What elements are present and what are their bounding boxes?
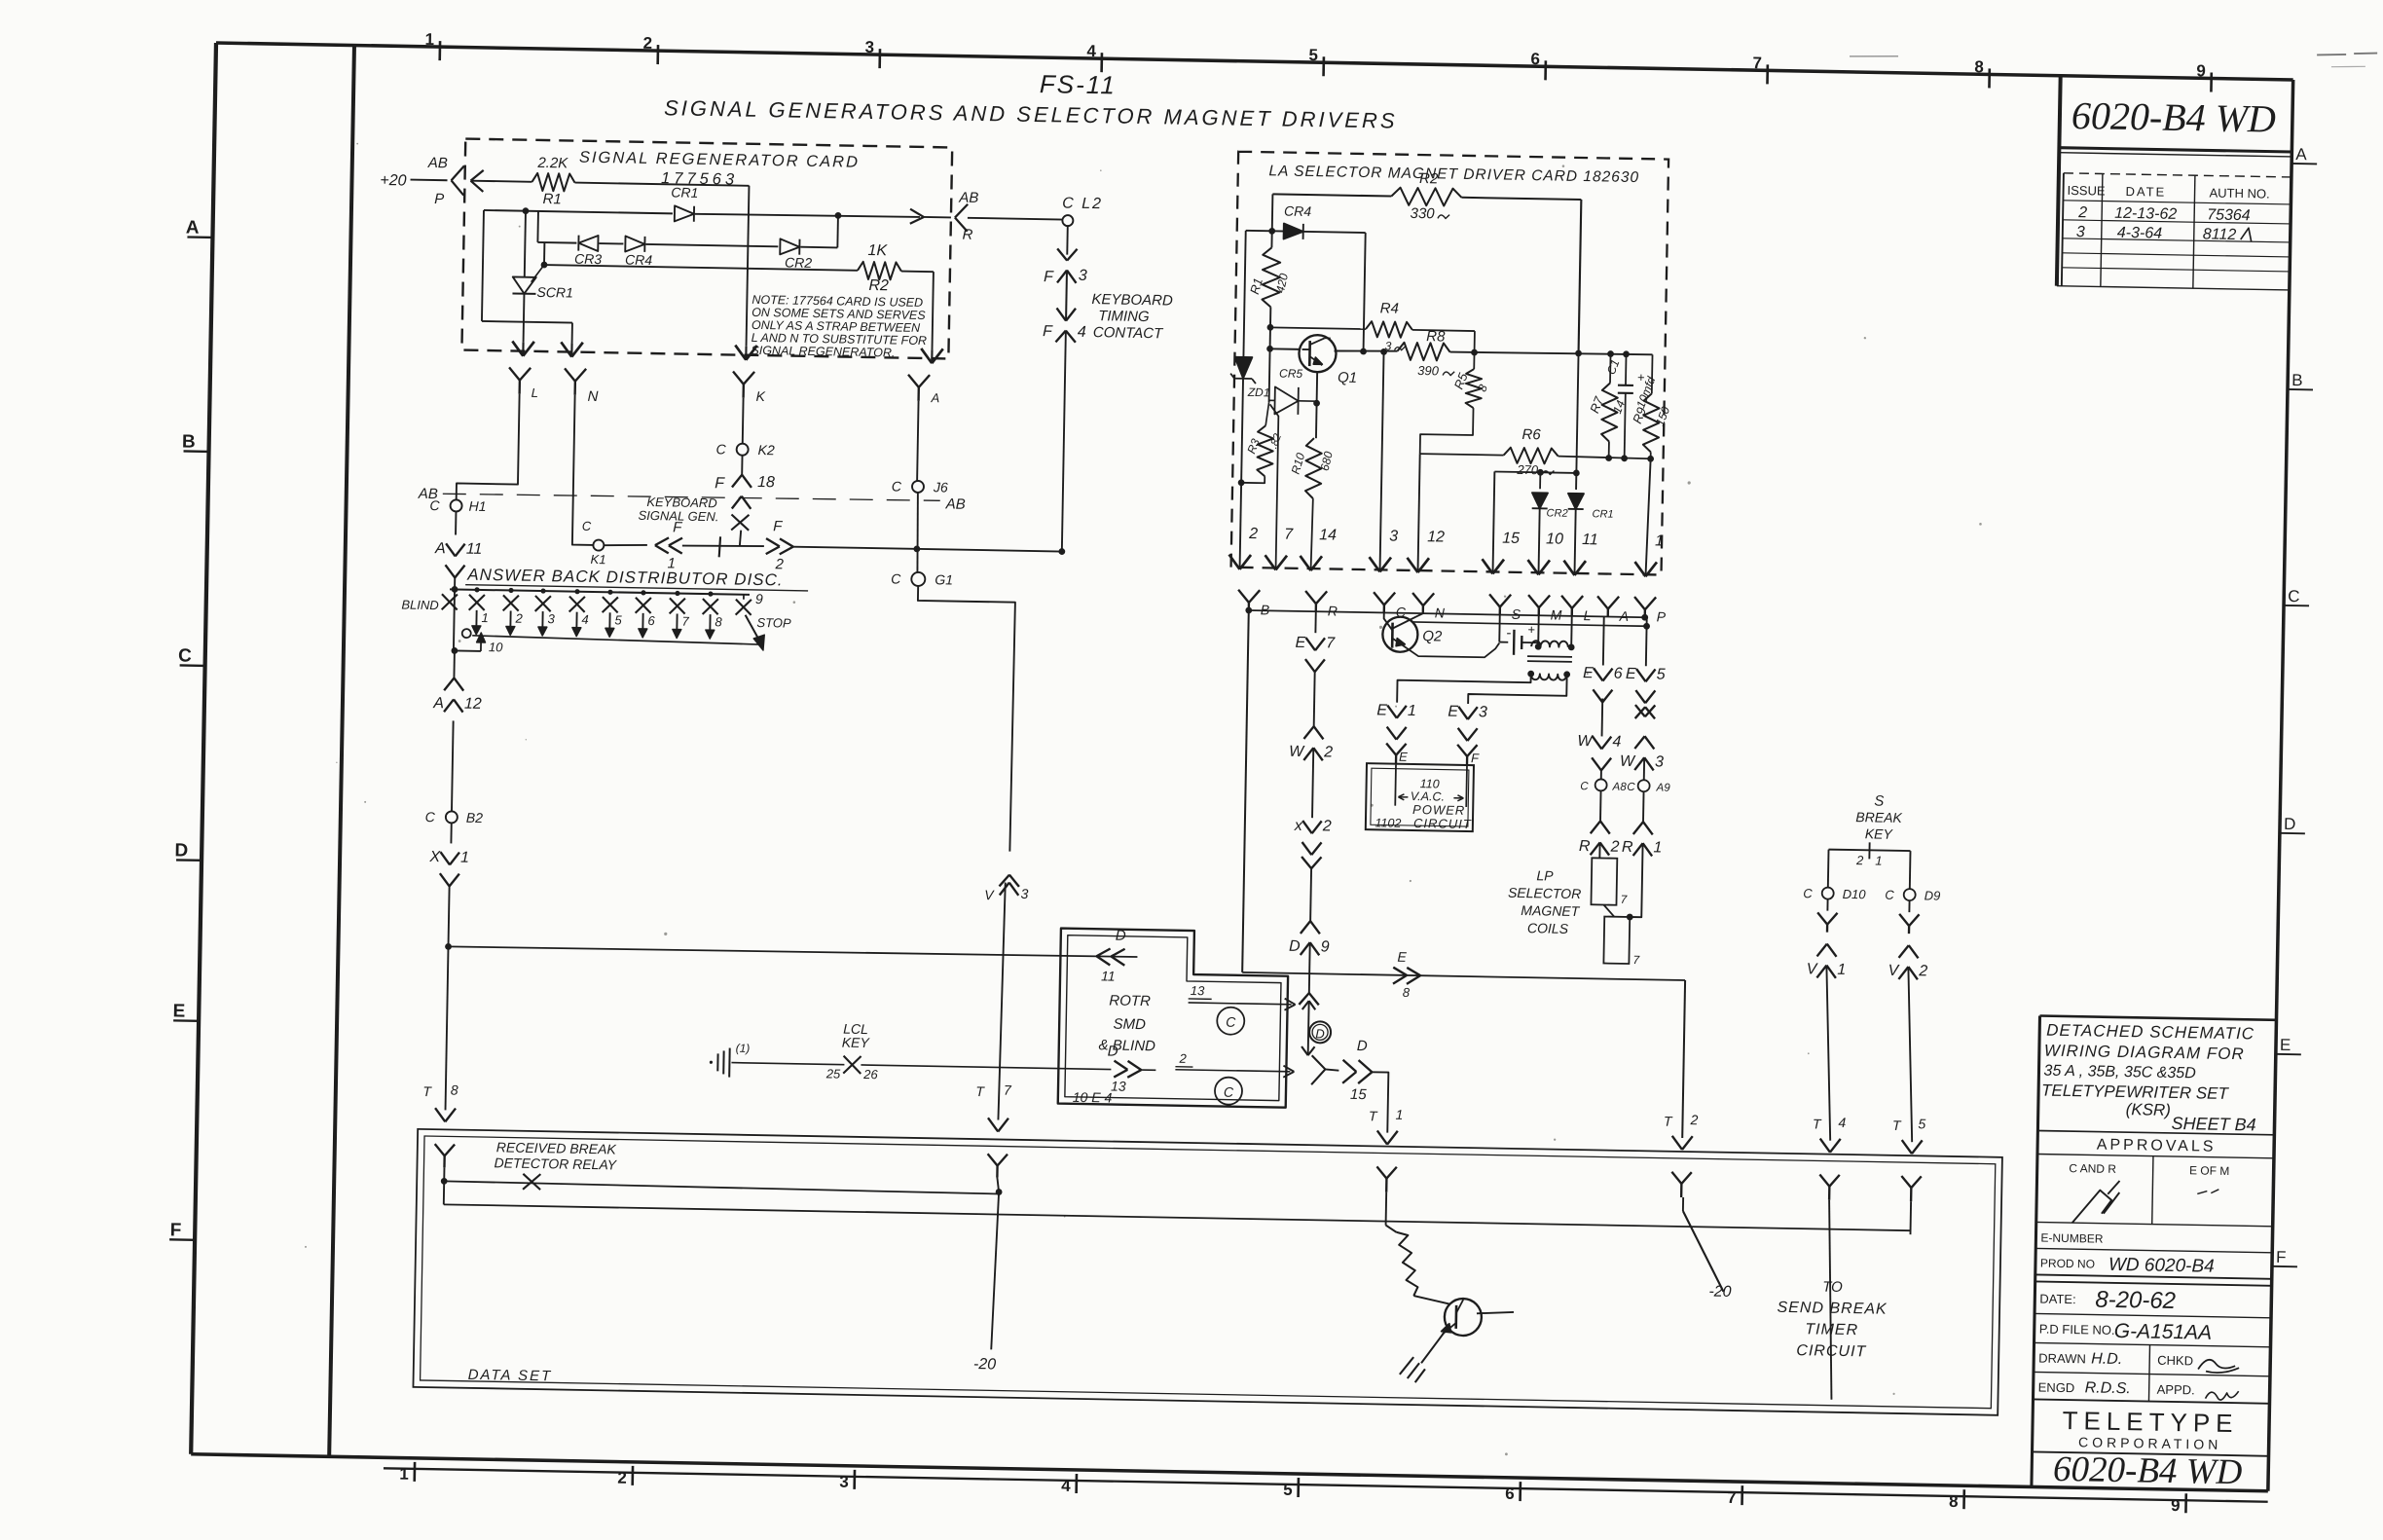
T1 resistor slanted (1385, 1226, 1396, 1232)
connector 10 arrow up (477, 633, 486, 642)
svg-text:C: C (891, 570, 901, 586)
wire pin 15 line (1494, 471, 1576, 472)
svg-text:3: 3 (1479, 704, 1487, 720)
svg-text:H.D.: H.D. (2091, 1351, 2122, 1369)
plug chevron P (1634, 597, 1645, 609)
wire to D9 (1309, 868, 1312, 921)
connector F 3 arrow up (1057, 270, 1067, 282)
svg-text:APPD.: APPD. (2157, 1382, 2195, 1398)
LP selector magnet coil 2 (1603, 917, 1630, 964)
wire R4 to corner down to rail (1412, 330, 1475, 331)
svg-text:8: 8 (1949, 1492, 1959, 1511)
svg-text:8-20-62: 8-20-62 (2095, 1287, 2176, 1314)
wire CR3 CR4 line (537, 241, 576, 244)
wire A column (917, 401, 918, 481)
svg-text:2: 2 (642, 34, 652, 53)
svg-text:V: V (1888, 963, 1899, 979)
plug chevron L (1561, 596, 1572, 608)
svg-text:1: 1 (460, 850, 469, 866)
svg-text:F: F (1471, 751, 1480, 765)
svg-text:4-3-64: 4-3-64 (2117, 225, 2163, 242)
rotor contact circle C upper (1217, 1007, 1244, 1034)
svg-text:SELECTOR: SELECTOR (1508, 885, 1581, 901)
bottom ruler tick 6 (1519, 1482, 1521, 1501)
svg-text:26: 26 (862, 1067, 878, 1082)
svg-text:R6: R6 (1521, 426, 1541, 443)
svg-text:2: 2 (617, 1469, 627, 1487)
svg-text:N: N (1435, 605, 1446, 620)
bottom ruler tick 5 (1297, 1478, 1300, 1497)
svg-text:E: E (1626, 666, 1636, 682)
junction dot on CR1 line (523, 207, 530, 214)
svg-text:DETACHED SCHEMATIC: DETACHED SCHEMATIC (2046, 1021, 2255, 1044)
svg-text:SMD: SMD (1113, 1016, 1146, 1034)
svg-text:ISSUE: ISSUE (2067, 183, 2106, 199)
top ruler tick 2 (656, 45, 659, 64)
plug chevron M (1528, 595, 1539, 607)
junction dot before out arrow (834, 212, 841, 219)
svg-text:TELETYPE: TELETYPE (2062, 1406, 2238, 1438)
svg-text:6: 6 (1505, 1485, 1515, 1503)
resistor R9 150 ohm vertical (1651, 354, 1654, 393)
wire R6 right to R7 R9 (1558, 457, 1651, 459)
card pin arrow below R1 corner (735, 346, 747, 360)
border top ruler line (216, 43, 2293, 80)
signal regenerator card dashed box (461, 139, 952, 359)
svg-text:ZD1: ZD1 (1247, 385, 1270, 399)
battery cap symbol (1498, 615, 1500, 642)
svg-text:12-13-62: 12-13-62 (2114, 205, 2177, 223)
svg-text:WD 6020-B4: WD 6020-B4 (2108, 1255, 2215, 1277)
svg-text:W: W (1577, 733, 1594, 750)
svg-text:10: 10 (1546, 531, 1563, 547)
answer back contact BLIND (442, 594, 458, 609)
svg-text:C: C (1627, 782, 1635, 793)
terminal C B2 (446, 811, 458, 823)
wire left column down to T8 (446, 946, 449, 1110)
svg-text:5: 5 (1657, 666, 1666, 682)
resistor R4 3 ohm (1366, 321, 1412, 338)
svg-text:E: E (1448, 704, 1458, 720)
svg-text:D: D (1315, 1026, 1325, 1041)
svg-text:C: C (2288, 587, 2300, 605)
title block outline (2032, 1016, 2040, 1487)
svg-text:D9: D9 (1925, 888, 1941, 902)
arrowheads D 11 into ROTR (1096, 948, 1110, 956)
wire ground to LCL contact (731, 1063, 844, 1065)
issue table (2064, 173, 2291, 177)
wire to R1 (471, 181, 532, 182)
wire CR2 up to CR1 output (800, 246, 837, 249)
plug chevron T2 inside data set box (1671, 1172, 1681, 1184)
ground symbol LCL key (716, 1053, 718, 1071)
svg-text:E: E (1295, 635, 1305, 651)
answer back contact 3 (540, 588, 545, 593)
wire to CL2 terminal (968, 218, 1063, 220)
wire break key right to D9 (1909, 851, 1912, 889)
wire P column down (1646, 617, 1648, 626)
svg-text:-20: -20 (1708, 1284, 1732, 1301)
border bottom line (191, 1454, 2268, 1491)
svg-text:15: 15 (1502, 531, 1520, 547)
svg-text:14: 14 (1319, 527, 1337, 543)
connector F 18 (741, 456, 743, 475)
svg-text:DRAWN: DRAWN (2038, 1351, 2086, 1367)
terminal C J6 (912, 481, 924, 493)
svg-text:10 E 4: 10 E 4 (1073, 1089, 1113, 1106)
svg-text:1: 1 (481, 610, 489, 625)
wire G1 down and over to V3 column (913, 586, 1015, 852)
wire pin 3 from rail (1380, 351, 1384, 571)
answer back pickup circle (462, 629, 471, 638)
svg-text:C AND R: C AND R (2069, 1161, 2116, 1176)
svg-text:5: 5 (1308, 46, 1318, 64)
plug chevron T1 inside data set box (1376, 1166, 1386, 1178)
svg-text:35 A , 35B, 35C &35D: 35 A , 35B, 35C &35D (2043, 1063, 2196, 1082)
border inner margin line (329, 46, 354, 1457)
svg-text:C: C (892, 478, 902, 494)
loop left vertical wire (482, 210, 484, 321)
base wire to Q1 (1270, 348, 1301, 350)
plug chevron N (1412, 593, 1423, 605)
svg-text:MAGNET: MAGNET (1521, 902, 1581, 919)
connector R 1 arrow up (1633, 843, 1643, 856)
plug chevron below F4 (1055, 330, 1065, 342)
card pin arrow at loop end (571, 323, 573, 344)
top ruler tick 5 (1322, 56, 1325, 76)
wire E8 corner down to T2 (1682, 980, 1685, 1138)
top ruler tick 4 (1100, 53, 1103, 72)
svg-text:SIGNAL GEN.: SIGNAL GEN. (638, 508, 718, 524)
svg-text:8: 8 (451, 1082, 458, 1097)
svg-text:D10: D10 (1843, 887, 1867, 901)
svg-text:6020-B4 WD: 6020-B4 WD (2053, 1449, 2243, 1492)
wire coil1 to coil2 (1603, 905, 1614, 917)
wire P column to E5 (1645, 626, 1648, 666)
terminal C K2 (737, 444, 749, 456)
wire socket W4 to A8 (1600, 770, 1602, 779)
svg-text:E OF M: E OF M (2189, 1163, 2230, 1178)
svg-text:X: X (428, 849, 441, 865)
bottom ruler tick 8 (1962, 1489, 1965, 1509)
wire R10 to pin 14 (1311, 498, 1313, 570)
svg-text:K1: K1 (590, 552, 605, 567)
connector X 2 arrow down (1302, 821, 1312, 833)
svg-text:LP: LP (1536, 867, 1554, 883)
svg-text:FS-11: FS-11 (1040, 69, 1117, 99)
wire CR3 to CR4 (599, 242, 623, 244)
ROTR SMD and BLIND box (1058, 929, 1289, 1108)
wire K1 to F contacts (605, 544, 647, 546)
svg-text:8: 8 (1974, 57, 1984, 76)
card pin 15 arrow (1482, 559, 1493, 573)
svg-text:CR4: CR4 (1284, 203, 1312, 219)
arrowhead out to AB R (910, 209, 924, 217)
card pin arrow below SCR1 (523, 322, 525, 343)
wire B2 down to X1 (450, 823, 452, 843)
plug chevron N (565, 368, 575, 381)
wire A11 to answer back bus (454, 577, 456, 588)
connector V 1 arrow up (1816, 965, 1826, 977)
diode CR4 (1284, 224, 1303, 239)
wire secondary to E3 (1468, 673, 1567, 706)
svg-text:R.D.S.: R.D.S. (2085, 1379, 2131, 1397)
diode CR3 (578, 236, 598, 251)
svg-text:F: F (2276, 1248, 2287, 1266)
connector F 2 arrows (766, 538, 780, 546)
plug chevron R (1305, 591, 1316, 604)
wire T4 down inside box (1825, 1200, 1835, 1400)
svg-text:2: 2 (1323, 744, 1333, 760)
wire T2 diagonal to -20 (1682, 1197, 1684, 1211)
vertical V2 wire (1270, 194, 1273, 247)
answer back contact 5 (607, 590, 612, 595)
svg-text:R2: R2 (868, 277, 889, 294)
svg-text:8: 8 (1403, 985, 1411, 1000)
transistor Q2 (1382, 616, 1418, 652)
svg-text:AUTH NO.: AUTH NO. (2209, 185, 2269, 201)
svg-text:75364: 75364 (2207, 206, 2251, 224)
svg-text:BREAK: BREAK (1855, 809, 1902, 825)
send break transistor emitter and arrow (1442, 1323, 1456, 1335)
wire down to W2 (1313, 672, 1316, 726)
card pin 1 arrow (1634, 562, 1646, 576)
svg-text:13: 13 (1191, 983, 1205, 998)
plug chevron T4 inside data set box (1819, 1175, 1829, 1187)
svg-text:F: F (773, 518, 783, 534)
wire A12 down to B2 (452, 720, 454, 811)
svg-text:1: 1 (1395, 1107, 1403, 1122)
svg-text:C: C (1580, 781, 1589, 792)
svg-text:CR5: CR5 (1279, 366, 1303, 380)
svg-text:10: 10 (489, 640, 503, 654)
border right line (2268, 80, 2293, 1491)
svg-text:C: C (1224, 1084, 1234, 1100)
svg-text:2: 2 (1178, 1051, 1187, 1066)
svg-text:2: 2 (514, 611, 523, 626)
title block approvals section (2037, 1130, 2274, 1134)
terminal C A8 (1595, 779, 1607, 790)
svg-text:C: C (1885, 888, 1894, 902)
svg-text:2: 2 (1248, 526, 1258, 542)
wire pin 15 (1492, 471, 1494, 573)
svg-text:P: P (1657, 608, 1667, 624)
wire D column down across E8 wire (1308, 942, 1311, 993)
svg-text:C: C (715, 441, 726, 457)
svg-text:1: 1 (1653, 839, 1662, 856)
transistor Q1 (1299, 335, 1337, 373)
card pin 3 arrow (1369, 557, 1380, 571)
wire R4 line (1270, 327, 1366, 329)
resistor R5 8 ohm vertical (1466, 369, 1483, 408)
svg-text:3: 3 (1655, 753, 1664, 770)
resistor R6 270 ohm (1504, 448, 1558, 464)
svg-text:2: 2 (1322, 818, 1332, 834)
break key contact bar (1829, 850, 1911, 851)
SCR1 thyristor (525, 211, 526, 277)
wire CR4 corner down (1364, 233, 1366, 351)
wire D15 to T1 (1371, 1072, 1388, 1132)
svg-text:25: 25 (825, 1066, 841, 1081)
terminal C H1 (450, 499, 461, 511)
svg-text:(1): (1) (736, 1042, 751, 1055)
data set box inner (421, 1136, 1996, 1409)
svg-text:13: 13 (1111, 1079, 1126, 1094)
svg-text:6: 6 (1530, 50, 1540, 68)
connector D 15 arrows (1342, 1060, 1356, 1072)
svg-text:CR1: CR1 (1592, 508, 1613, 520)
svg-text:11: 11 (1101, 968, 1116, 983)
wire L column to transformer (1570, 608, 1573, 647)
wire SCR1 gate line (544, 265, 858, 271)
connector E 8 arrows (1393, 968, 1407, 975)
wire R3 bottom to V1 (1241, 476, 1265, 483)
wire C plug to Q2 base (1383, 612, 1392, 630)
connector E 6 (1594, 668, 1603, 680)
top ruler tick 9 (2210, 72, 2213, 92)
wire E8 from B column (1242, 972, 1685, 980)
connector W 4 (1593, 736, 1602, 749)
plug chevron T5 inside data set box (1901, 1176, 1911, 1188)
terminal C K1 (593, 539, 604, 550)
svg-text:B: B (182, 431, 196, 452)
connector AB P (452, 165, 464, 180)
diode CR1 (675, 205, 694, 221)
plug chevron A (908, 375, 919, 387)
wire F4 down to F2 wire (1062, 331, 1066, 552)
svg-text:C: C (1226, 1014, 1236, 1030)
svg-text:F: F (1044, 269, 1054, 285)
svg-text:3: 3 (839, 1473, 849, 1491)
svg-text:E: E (2280, 1036, 2291, 1054)
svg-text:6020-B4 WD: 6020-B4 WD (2071, 93, 2277, 141)
wire CR1 line (484, 210, 673, 213)
svg-text:C: C (429, 497, 440, 513)
svg-text:D: D (2284, 815, 2296, 833)
svg-text:x: x (1294, 818, 1303, 834)
wire R5 bottom jog to R6 line (1420, 407, 1474, 455)
power circuit pins (1394, 765, 1397, 806)
plug chevron below D10 (1826, 899, 1828, 911)
wire M column to transformer (1537, 607, 1540, 646)
svg-text:2: 2 (1609, 839, 1619, 856)
svg-text:2: 2 (1855, 853, 1864, 867)
svg-text:L: L (532, 385, 539, 400)
svg-text:SCR1: SCR1 (536, 284, 573, 301)
svg-text:3: 3 (2076, 224, 2085, 240)
svg-text:V: V (1806, 961, 1817, 977)
wire V2 to T5 (1905, 967, 1915, 1142)
LP selector magnet coil 1 (1591, 858, 1617, 904)
resistor R2 1K (858, 262, 901, 280)
svg-text:SIGNAL REGENERATOR.: SIGNAL REGENERATOR. (751, 344, 895, 360)
wire SCR1 down (523, 294, 526, 322)
svg-text:C: C (425, 809, 436, 825)
wire R2 330 top line (1272, 194, 1391, 196)
R column chain (1314, 611, 1316, 633)
rail wire from Q1 right (1335, 349, 1398, 351)
top ruler tick 6 (1544, 60, 1547, 80)
wire B column down (1242, 610, 1249, 972)
connector E 7 (1305, 638, 1315, 650)
svg-text:Q1: Q1 (1338, 370, 1357, 386)
svg-text:330: 330 (1410, 205, 1435, 222)
svg-text:E: E (1397, 949, 1407, 965)
resistor R8 390 ohm (1397, 343, 1449, 361)
card pin 12 arrow (1407, 558, 1418, 572)
answer back collector line (472, 636, 758, 644)
svg-text:WIRING DIAGRAM FOR: WIRING DIAGRAM FOR (2044, 1042, 2245, 1064)
wire T7 to received break junction (997, 1177, 999, 1192)
wire R2 right corner down to rail (1579, 200, 1582, 353)
svg-text:ENGD: ENGD (2038, 1380, 2075, 1396)
wire K column (742, 398, 745, 444)
wire LCL to ROTR D13 (861, 1065, 1111, 1070)
svg-text:N: N (587, 388, 598, 405)
svg-text:(KSR): (KSR) (2125, 1100, 2171, 1119)
svg-text:ROTR: ROTR (1109, 992, 1151, 1009)
keyboard timing contact shaft (1065, 271, 1068, 321)
svg-text:7: 7 (1752, 54, 1762, 72)
svg-text:4: 4 (1086, 42, 1096, 60)
svg-text:S: S (1512, 606, 1521, 622)
svg-text:F: F (715, 475, 725, 492)
answer back contact 6 (641, 590, 645, 595)
bottom ruler tick 1 (413, 1462, 416, 1482)
svg-text:390: 390 (1417, 363, 1440, 378)
zener diode ZD1 (1243, 231, 1245, 357)
svg-text:6: 6 (647, 613, 655, 628)
double arrow D column (1302, 1001, 1309, 1009)
plug chevron below D9 (1908, 900, 1910, 912)
svg-text:9: 9 (1320, 938, 1329, 955)
plug chevron E above power circuit (1386, 744, 1396, 755)
wire T5 down to wire2 (1909, 1201, 1912, 1234)
svg-text:A: A (186, 217, 200, 238)
wire contact to F wire (740, 531, 741, 546)
svg-text:K2: K2 (758, 442, 776, 458)
diode CR4 (625, 237, 644, 252)
svg-text:DATE: DATE (2125, 184, 2166, 200)
svg-text:8112: 8112 (2203, 226, 2237, 243)
svg-text:Q2: Q2 (1422, 628, 1443, 644)
emitter wire Q1 down (1316, 372, 1317, 438)
svg-text:7: 7 (681, 614, 689, 629)
card pin 14 arrow (1300, 556, 1311, 570)
svg-text:5: 5 (614, 612, 622, 627)
wire R2 to right corner (901, 271, 934, 274)
svg-text:B2: B2 (466, 810, 484, 825)
svg-text:2.2K: 2.2K (536, 155, 568, 172)
svg-text:CR2: CR2 (785, 254, 813, 270)
plug chevron B (1238, 590, 1249, 603)
svg-text:A: A (930, 390, 939, 405)
wire left column down from answer back (454, 589, 455, 650)
top ruler tick 7 (1766, 64, 1769, 84)
svg-text:H1: H1 (468, 498, 486, 514)
answer back contact 2 (508, 588, 513, 593)
plug chevron F above power circuit (1457, 745, 1467, 756)
card pin 11 arrow (1563, 561, 1575, 575)
svg-text:AB: AB (958, 190, 978, 206)
wire N column (572, 395, 596, 545)
rotor contact circle C lower (1215, 1077, 1242, 1104)
svg-text:C: C (178, 645, 192, 666)
transformer primary coil (1531, 641, 1568, 647)
card pin 10 arrow (1527, 560, 1539, 574)
svg-text:L: L (1584, 607, 1592, 623)
svg-text:7: 7 (1284, 527, 1294, 543)
